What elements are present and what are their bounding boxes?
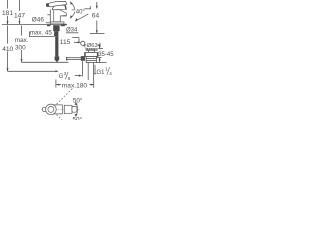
svg-text:max.: max. [15, 37, 29, 44]
svg-text:Ø34: Ø34 [66, 28, 78, 34]
svg-text:50°: 50° [73, 116, 83, 121]
svg-text:max. 45: max. 45 [30, 30, 53, 37]
svg-text:max.180: max.180 [62, 83, 88, 90]
svg-text:3: 3 [64, 71, 67, 76]
svg-text:G1: G1 [97, 70, 106, 76]
svg-text:35-45: 35-45 [98, 52, 114, 58]
svg-text:64: 64 [92, 12, 100, 19]
svg-text:Ø63: Ø63 [87, 43, 98, 49]
svg-text:300: 300 [15, 44, 26, 51]
svg-text:410: 410 [2, 46, 13, 53]
svg-text:4: 4 [109, 71, 112, 76]
svg-text:115: 115 [60, 39, 71, 46]
svg-text:40°: 40° [76, 9, 86, 15]
svg-text:181: 181 [2, 10, 13, 17]
svg-text:50°: 50° [73, 96, 83, 104]
svg-text:1: 1 [105, 66, 108, 71]
svg-text:147: 147 [14, 12, 25, 19]
svg-text:8: 8 [68, 76, 71, 81]
svg-text:Ø46: Ø46 [32, 17, 45, 24]
